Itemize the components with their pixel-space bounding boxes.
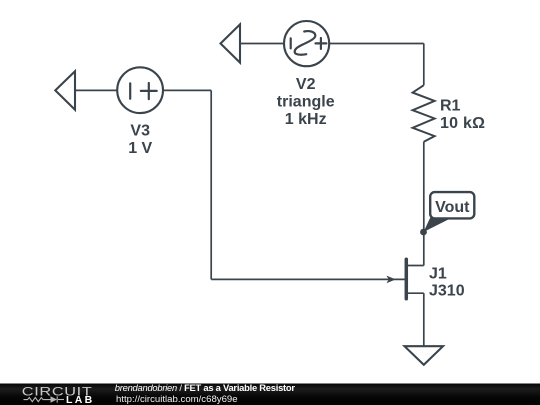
svg-text:J310: J310 <box>429 283 465 300</box>
svg-text:http://circuitlab.com/c68y69e: http://circuitlab.com/c68y69e <box>116 394 238 405</box>
svg-text:brendandobrien / FET as a Vari: brendandobrien / FET as a Variable Resis… <box>115 382 296 393</box>
svg-text:V2: V2 <box>296 76 316 93</box>
svg-text:V3: V3 <box>130 123 150 140</box>
svg-text:1 kHz: 1 kHz <box>285 111 327 128</box>
svg-text:R1: R1 <box>440 98 461 115</box>
svg-text:J1: J1 <box>429 265 447 282</box>
svg-text:Vout: Vout <box>435 199 470 216</box>
svg-text:1 V: 1 V <box>128 140 152 157</box>
svg-text:LAB: LAB <box>66 394 94 405</box>
svg-text:10 kΩ: 10 kΩ <box>440 115 485 132</box>
svg-text:triangle: triangle <box>277 94 335 111</box>
